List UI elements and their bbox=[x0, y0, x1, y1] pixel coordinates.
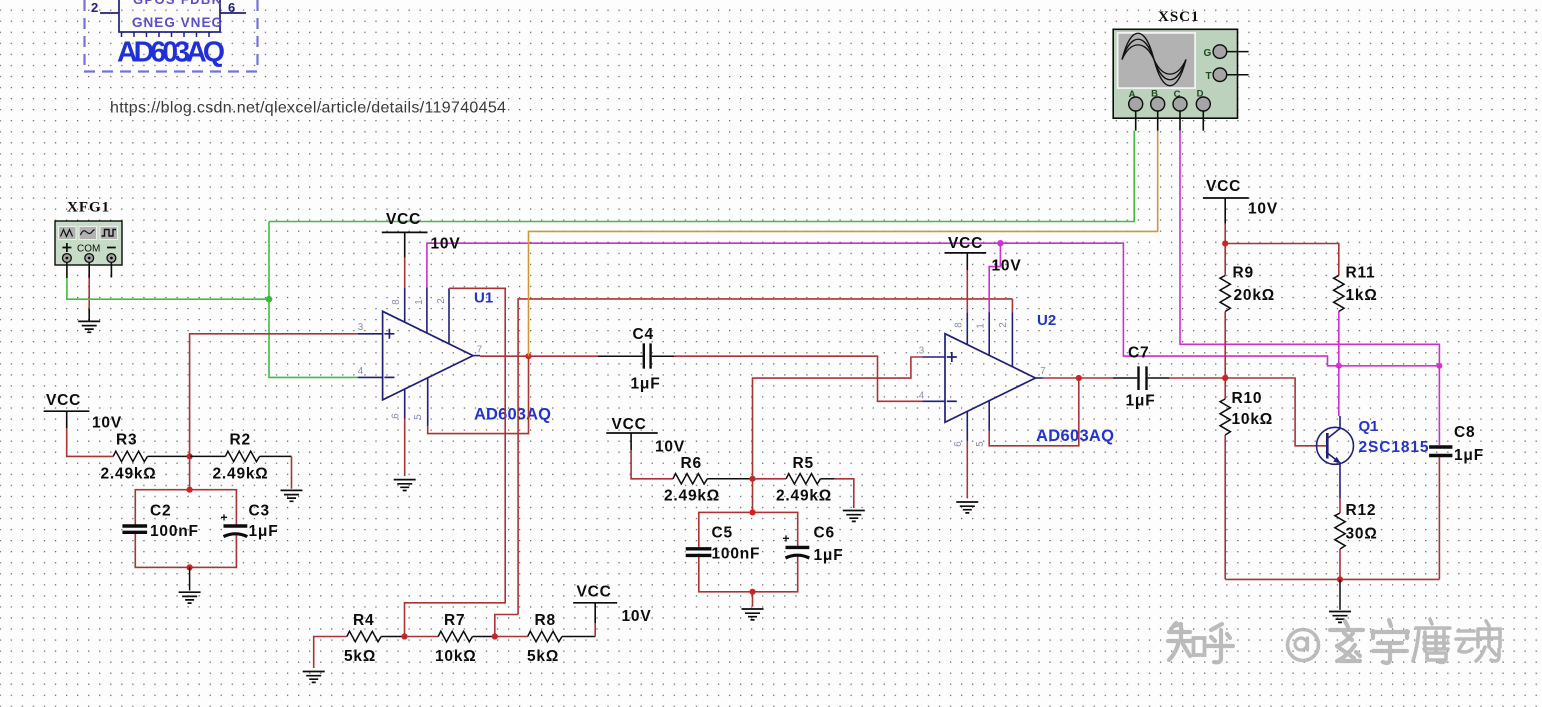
Q1 base bar bbox=[1326, 433, 1329, 459]
selection dashed border around IC bbox=[84, 0, 258, 72]
power VCC right bar bbox=[1203, 197, 1249, 199]
XFG1 terminal - bbox=[107, 254, 116, 263]
ground stub under XFG1 bbox=[88, 309, 90, 321]
wire orange scope B vertical bbox=[529, 131, 1158, 357]
U2 pin 1 lead bbox=[988, 312, 990, 355]
svg-text:4: 4 bbox=[358, 366, 364, 377]
resistor R9 bbox=[1220, 276, 1230, 312]
svg-text:1kΩ: 1kΩ bbox=[1346, 287, 1378, 304]
wire magenta R11 bottom to node bbox=[1338, 312, 1340, 366]
svg-text:U1: U1 bbox=[474, 290, 493, 307]
svg-text:R9: R9 bbox=[1233, 265, 1254, 282]
svg-text:2SC1815: 2SC1815 bbox=[1359, 439, 1429, 456]
svg-text:2.49kΩ: 2.49kΩ bbox=[776, 488, 832, 505]
wire magenta node to node bbox=[1339, 365, 1440, 367]
svg-text:C5: C5 bbox=[712, 525, 733, 542]
XSC1 screen waveform 2 bbox=[1122, 39, 1186, 80]
IC bottom pin ticks bbox=[122, 32, 210, 37]
wire red VCC to U2 pin 8 bbox=[966, 270, 968, 312]
XSC1 terminal G bbox=[1213, 45, 1227, 59]
XSC1 C pin stub bbox=[1179, 110, 1181, 130]
svg-text:R7: R7 bbox=[444, 612, 465, 629]
svg-text:+: + bbox=[783, 532, 790, 546]
ground under XFG1 bbox=[78, 321, 100, 332]
wire magenta scope C down to right section bbox=[1180, 131, 1439, 366]
XFG1 terminal + bbox=[63, 254, 72, 263]
XFG1 pin stub - (unconnected) bbox=[110, 262, 112, 277]
XFG1 pin stub + bbox=[66, 262, 68, 278]
power VCC above U2 bar bbox=[945, 252, 987, 254]
svg-text:10V: 10V bbox=[655, 439, 685, 456]
U2 plus marker bbox=[947, 352, 957, 362]
svg-text:10V: 10V bbox=[992, 258, 1022, 275]
wire black C7 left lead bbox=[1113, 377, 1138, 379]
wire magenta node to C8 bbox=[1438, 366, 1440, 445]
junction node box bottom bbox=[749, 589, 755, 595]
resistor R4 bbox=[347, 631, 381, 641]
svg-text:10V: 10V bbox=[1248, 201, 1278, 218]
svg-text:5: 5 bbox=[975, 441, 986, 447]
capacitor C7 plates bbox=[1139, 366, 1147, 390]
resistor R3 bbox=[113, 451, 147, 461]
wire red y299 down to U2 pin 2 bbox=[1011, 299, 1013, 312]
ground under U2 pin 6 bbox=[956, 502, 978, 513]
op-amp U1 triangle bbox=[383, 311, 473, 400]
U2 pin 7 lead bbox=[1035, 377, 1042, 379]
capacitor C3 curved plate bbox=[224, 534, 248, 537]
svg-text:C3: C3 bbox=[249, 503, 270, 520]
watermark char 鹰 bbox=[1413, 619, 1450, 662]
wire red node to R9 top bbox=[1224, 244, 1226, 276]
wire red node up to U2 pin 3 bbox=[753, 357, 923, 479]
wire red junction down to C2/C3 box bbox=[189, 456, 191, 489]
XSC1 A pin stub bbox=[1135, 110, 1137, 130]
power VCC bottom stub bbox=[594, 603, 596, 623]
svg-text:30Ω: 30Ω bbox=[1346, 526, 1378, 543]
svg-text:7: 7 bbox=[1040, 366, 1045, 377]
svg-text:R11: R11 bbox=[1346, 265, 1376, 282]
svg-text:5kΩ: 5kΩ bbox=[527, 648, 559, 665]
wire black node to ground bbox=[1339, 579, 1341, 609]
pin 2 wire bbox=[100, 12, 119, 14]
svg-text:Q1: Q1 bbox=[1359, 418, 1379, 435]
XSC1 terminal T bbox=[1213, 68, 1227, 82]
resistor R12 bbox=[1335, 513, 1345, 549]
wire red node to R10 bbox=[1224, 378, 1226, 399]
wire red U1 pin 2 loop right and down bbox=[405, 288, 506, 636]
ground under U1 pin 6 bbox=[394, 480, 416, 491]
svg-text:C8: C8 bbox=[1454, 424, 1475, 441]
junction node green bbox=[266, 296, 273, 303]
capacitor C6 top plate bbox=[786, 546, 810, 549]
svg-text:1μF: 1μF bbox=[249, 523, 279, 540]
wire red down to ground right of R2 bbox=[291, 456, 293, 488]
svg-text:T: T bbox=[1206, 71, 1212, 82]
svg-text:1μF: 1μF bbox=[1454, 447, 1484, 464]
svg-text:VCC: VCC bbox=[577, 584, 612, 601]
svg-text:R10: R10 bbox=[1232, 390, 1263, 407]
svg-text:XFG1: XFG1 bbox=[67, 200, 110, 216]
svg-text:GPOS FDBK: GPOS FDBK bbox=[133, 0, 222, 7]
svg-text:10kΩ: 10kΩ bbox=[1232, 411, 1274, 428]
wire COM to ground (red) bbox=[88, 278, 90, 309]
junction node R12/ground rail bbox=[1337, 576, 1343, 582]
svg-text:R6: R6 bbox=[681, 455, 702, 472]
junction node R3/R2 bbox=[187, 453, 193, 459]
wire green junction up to channel-A run bbox=[268, 222, 270, 300]
resistor R8 bbox=[528, 631, 562, 641]
svg-text:1μF: 1μF bbox=[1126, 393, 1156, 410]
svg-text:R8: R8 bbox=[535, 612, 556, 629]
svg-text:6: 6 bbox=[391, 413, 402, 419]
resistor R10 bbox=[1220, 399, 1230, 435]
XSC1 terminal A bbox=[1129, 97, 1143, 111]
svg-text:1μF: 1μF bbox=[814, 547, 844, 564]
XSC1 D pin stub (unconnected) bbox=[1202, 110, 1204, 130]
wire junction to R5 bbox=[753, 478, 787, 480]
wire junction to R8 bbox=[495, 636, 528, 638]
U2 pin 4 lead bbox=[923, 400, 946, 402]
power VCC bottom bar bbox=[573, 602, 617, 604]
wire magenta branch to U2 pin 1 bbox=[989, 243, 1000, 312]
svg-text:100nF: 100nF bbox=[150, 523, 199, 540]
svg-text:1: 1 bbox=[414, 299, 425, 304]
svg-text:R3: R3 bbox=[116, 432, 137, 449]
Q1 collector lead bbox=[1327, 416, 1340, 439]
wire box around C2 C3 (red) bbox=[135, 490, 236, 568]
U1 pin 8 lead bbox=[404, 288, 406, 322]
svg-text:10kΩ: 10kΩ bbox=[435, 648, 477, 665]
U2 pin 6 lead bbox=[966, 411, 968, 441]
wire red vertical riser x=518 bbox=[518, 299, 1012, 615]
svg-text:R12: R12 bbox=[1346, 502, 1377, 519]
ground under C5/C6 bbox=[742, 609, 764, 620]
XSC1 terminal D bbox=[1196, 97, 1210, 111]
capacitor C8 plates bbox=[1429, 447, 1452, 456]
junction node scope C right / C8 bbox=[1436, 363, 1442, 369]
svg-text:+: + bbox=[221, 511, 228, 525]
svg-text:2.49kΩ: 2.49kΩ bbox=[101, 466, 157, 483]
U1 pin 5 lead bbox=[427, 378, 429, 427]
svg-text:6: 6 bbox=[953, 441, 964, 447]
wire red U1 pin 6 to ground bbox=[404, 419, 406, 477]
wire red Q1 emitter to R12 bbox=[1339, 499, 1341, 513]
XSC1 terminal C bbox=[1173, 97, 1187, 111]
wire red U2 output junction to C7 lead bbox=[1079, 377, 1113, 379]
power VCC mid bar bbox=[606, 432, 657, 434]
wire red ground riser to R4 bbox=[314, 637, 347, 669]
Q1 emitter arrow bbox=[1333, 457, 1340, 463]
U2 minus marker bbox=[947, 400, 957, 402]
U1 pin 2 lead bbox=[448, 288, 450, 344]
wire green junction down to U1 pin 4 bbox=[269, 299, 358, 377]
svg-text:100nF: 100nF bbox=[712, 546, 761, 563]
U1 pin 4 lead bbox=[358, 376, 383, 378]
watermark char 知 bbox=[1168, 623, 1192, 660]
wire red U2 pin 5 feedback loop bbox=[989, 378, 1079, 446]
U1 pin 1 lead bbox=[426, 287, 428, 333]
svg-text:VCC: VCC bbox=[46, 392, 81, 409]
XSC1 T lead bbox=[1226, 74, 1248, 76]
svg-text:2.49kΩ: 2.49kΩ bbox=[213, 466, 269, 483]
resistor R7 bbox=[438, 631, 472, 641]
wire box bottom to ground bbox=[752, 592, 754, 607]
U1 plus marker bbox=[384, 329, 394, 339]
wire R4 to junction bbox=[381, 636, 404, 638]
capacitor C3 top plate bbox=[224, 524, 248, 527]
svg-text:AD603AQ: AD603AQ bbox=[1036, 427, 1114, 445]
svg-text:https://blog.csdn.net/qlexcel/: https://blog.csdn.net/qlexcel/article/de… bbox=[110, 100, 506, 117]
wire red down to ground right of R5 bbox=[834, 479, 853, 508]
junction node U1 output / scope B bbox=[525, 353, 531, 359]
capacitor C4 right lead bbox=[652, 355, 674, 357]
svg-text:R2: R2 bbox=[230, 432, 251, 449]
XSC1 screen waveform 1 bbox=[1122, 33, 1186, 86]
svg-text:1: 1 bbox=[976, 323, 987, 328]
XFG1 square-wave icon bbox=[100, 227, 118, 240]
svg-text:2: 2 bbox=[436, 298, 447, 303]
U2 pin 5 lead bbox=[988, 401, 990, 431]
Q1 emitter lead bbox=[1327, 453, 1340, 499]
svg-text:1μF: 1μF bbox=[631, 376, 661, 393]
capacitor C6 curved plate bbox=[786, 555, 810, 558]
svg-text:10V: 10V bbox=[431, 236, 461, 253]
XFG1 pin stub COM bbox=[88, 262, 90, 278]
svg-text:20kΩ: 20kΩ bbox=[1234, 287, 1276, 304]
power VCC stub black bbox=[404, 232, 406, 257]
wire junction to R7 bbox=[405, 636, 439, 638]
power VCC right stub bbox=[1224, 198, 1226, 224]
wire junction to R2 bbox=[190, 455, 226, 457]
wire red riser foot to junction bbox=[495, 615, 518, 637]
wire VCC to U1 pin 8 (red) bbox=[404, 258, 406, 288]
U1 minus marker bbox=[384, 376, 394, 378]
svg-text:5kΩ: 5kΩ bbox=[344, 648, 376, 665]
svg-text:VCC: VCC bbox=[612, 416, 647, 433]
resistor R6 bbox=[673, 474, 707, 484]
svg-text:5: 5 bbox=[413, 414, 424, 420]
junction node U2 output bbox=[1076, 375, 1082, 381]
pin 6 wire bbox=[220, 12, 246, 14]
wire red VCC to R3 bbox=[67, 428, 114, 456]
power VCC left bar bbox=[44, 410, 90, 412]
XSC1 screen bbox=[1118, 33, 1196, 88]
XFG1 terminal COM bbox=[85, 254, 94, 263]
svg-text:7: 7 bbox=[477, 345, 482, 356]
capacitor C4 left lead bbox=[598, 355, 643, 357]
U2 pin 8 lead bbox=[966, 312, 968, 344]
wire red U1 output to C4 bbox=[480, 355, 598, 357]
watermark char 玄 bbox=[1330, 621, 1363, 661]
XFG1 sine-wave icon bbox=[79, 227, 97, 240]
ground under C2/C3 bbox=[179, 592, 201, 603]
U2 pin 3 lead bbox=[923, 356, 946, 358]
junction node R4/R7 bbox=[401, 633, 407, 639]
wire red C8 to bottom rail bbox=[1438, 457, 1440, 579]
power VCC mid stub bbox=[630, 433, 632, 450]
C2 plate gap mask bbox=[122, 528, 147, 531]
wire magenta node down to Q1 collector bbox=[1338, 366, 1340, 416]
U2 pin 2 lead bbox=[1011, 312, 1013, 367]
wire green long run to oscilloscope A bbox=[269, 131, 1134, 222]
junction node C7/R9/R10 bbox=[1222, 375, 1228, 381]
wire red U1 pin 5 loop to output node bbox=[428, 356, 529, 433]
svg-text:10V: 10V bbox=[622, 608, 652, 625]
svg-text:C7: C7 bbox=[1128, 345, 1149, 362]
wire red C4 to U2 pin 4 bbox=[674, 356, 923, 401]
oscilloscope XSC1 body bbox=[1113, 29, 1237, 118]
wire red bottom rail bbox=[1225, 578, 1439, 580]
wire red R12 to bottom node bbox=[1339, 549, 1341, 579]
wire red R9 bottom to C7 node bbox=[1224, 312, 1226, 379]
XSC1 B pin stub bbox=[1157, 110, 1159, 130]
ground under R12 bbox=[1329, 612, 1351, 623]
wire green XFG1 + output down bbox=[67, 278, 269, 299]
wire red U1 pin 3 from divider bbox=[190, 334, 358, 457]
junction node box top bbox=[749, 509, 755, 515]
ground right of R2 bbox=[281, 490, 303, 501]
svg-text:3: 3 bbox=[358, 322, 364, 333]
capacitor C4 plates bbox=[644, 343, 651, 368]
XFG1 terminal labels + COM - bbox=[62, 243, 115, 252]
function generator XFG1 body bbox=[55, 221, 122, 265]
svg-text:VCC: VCC bbox=[948, 235, 983, 252]
U1 pin 6 lead bbox=[404, 389, 406, 419]
junction node VCC/R9/R11 bbox=[1222, 240, 1228, 246]
svg-text:G: G bbox=[1204, 48, 1212, 59]
svg-text:C4: C4 bbox=[633, 326, 654, 343]
U1 pin 3 lead bbox=[358, 333, 383, 335]
wire box bottom to ground bbox=[189, 567, 191, 590]
ground left of R4 bbox=[303, 672, 325, 683]
XFG1 triangle-wave icon bbox=[59, 227, 77, 240]
svg-text:2: 2 bbox=[91, 0, 98, 15]
XSC1 G lead bbox=[1226, 51, 1248, 53]
svg-text:10V: 10V bbox=[92, 415, 122, 432]
wire red node down to C5/C6 box bbox=[752, 479, 754, 513]
svg-text:COM: COM bbox=[77, 244, 100, 255]
IC symbol U? (partial AD603AQ DIP at top edge) body rect bbox=[119, 0, 220, 32]
wire red R10 bottom to bottom rail bbox=[1224, 435, 1226, 579]
watermark char @ bbox=[1288, 630, 1319, 661]
svg-text:VCC: VCC bbox=[1206, 178, 1241, 195]
wire red node to R11 top bbox=[1225, 244, 1339, 276]
junction node magenta branch bbox=[997, 240, 1003, 246]
U1 pin 7 lead bbox=[473, 355, 480, 357]
junction node R7/R8 bbox=[492, 633, 498, 639]
watermark char 宇 bbox=[1372, 620, 1408, 663]
capacitor C2 plates bbox=[122, 526, 147, 532]
svg-text:2: 2 bbox=[998, 322, 1009, 327]
wire red VCC to R6 bbox=[631, 450, 673, 479]
wire R8 to VCC riser bbox=[562, 636, 595, 638]
wire magenta continue to right section bbox=[1000, 243, 1337, 366]
watermark char 魂 bbox=[1456, 621, 1500, 661]
wire red VCC down to node bbox=[1224, 224, 1226, 244]
power VCC left stub bbox=[66, 411, 68, 428]
svg-text:GNEG VNEG: GNEG VNEG bbox=[132, 15, 222, 30]
svg-text:8: 8 bbox=[954, 322, 965, 328]
junction node box bottom bbox=[187, 564, 193, 570]
svg-text:AD603AQ: AD603AQ bbox=[117, 37, 225, 69]
wire red C7 node to Q1 base bbox=[1225, 378, 1327, 446]
svg-text:U2: U2 bbox=[1037, 312, 1056, 329]
ground right of R5 bbox=[843, 511, 865, 522]
watermark char 乎 bbox=[1205, 624, 1233, 662]
svg-text:AD603AQ: AD603AQ bbox=[474, 406, 551, 424]
resistor R11 bbox=[1334, 276, 1344, 312]
power VCC above U2 stub bbox=[966, 253, 968, 270]
C5 plate gap mask bbox=[686, 550, 712, 553]
wire R6 to junction bbox=[707, 478, 752, 480]
capacitor C5 plates bbox=[686, 549, 712, 556]
wire R7 to junction bbox=[473, 636, 495, 638]
svg-text:VCC: VCC bbox=[386, 211, 421, 228]
XSC1 screen waveform 3 bbox=[1122, 45, 1186, 74]
junction node box top bbox=[187, 487, 193, 493]
svg-text:C6: C6 bbox=[814, 525, 835, 542]
svg-text:8: 8 bbox=[391, 299, 402, 305]
resistor R2 bbox=[225, 451, 259, 461]
wire R5 right bbox=[820, 478, 834, 480]
wire magenta U1 pin 1 up and right bbox=[427, 243, 1001, 287]
svg-text:3: 3 bbox=[919, 346, 925, 357]
wire red U2 output to C7 bbox=[1043, 377, 1079, 379]
svg-text:R5: R5 bbox=[793, 455, 814, 472]
C6 plate gap mask bbox=[786, 549, 810, 556]
wire R3 to junction bbox=[148, 455, 190, 457]
op-amp U2 triangle bbox=[945, 334, 1035, 423]
transistor Q1 circle bbox=[1317, 427, 1354, 464]
svg-text:R4: R4 bbox=[353, 612, 374, 629]
resistor R5 bbox=[786, 474, 820, 484]
svg-text:6: 6 bbox=[228, 0, 235, 15]
svg-text:2.49kΩ: 2.49kΩ bbox=[664, 488, 720, 505]
svg-text:C2: C2 bbox=[150, 503, 171, 520]
svg-text:XSC1: XSC1 bbox=[1158, 9, 1200, 25]
wire red U2 pin 6 to ground bbox=[966, 441, 968, 498]
svg-text:4: 4 bbox=[919, 391, 925, 402]
XSC1 terminal B bbox=[1151, 97, 1165, 111]
wire red riser to VCC bbox=[594, 623, 596, 637]
junction node R6/R5 bbox=[749, 476, 755, 482]
C3 plate gap mask bbox=[224, 528, 248, 535]
wire red C7 to R9/R10 node bbox=[1169, 377, 1225, 379]
wire box around C5 C6 (red) bbox=[699, 512, 798, 591]
wire black C7 right lead bbox=[1148, 377, 1169, 379]
power VCC above U1 bar bbox=[382, 231, 428, 233]
wire R2 right to ground bbox=[260, 455, 292, 457]
junction node R11/Q1/scope C left bbox=[1336, 363, 1342, 369]
